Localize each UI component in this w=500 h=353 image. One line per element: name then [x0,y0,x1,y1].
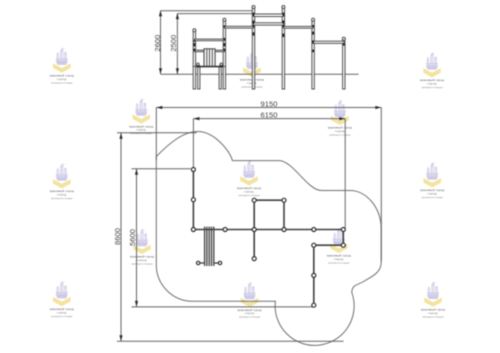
dimension line 5600 [136,169,138,307]
watermark row3 left [50,164,74,200]
watermark row3 mid [237,161,261,197]
node lower right bottom [312,303,316,307]
extension 5600 top [132,168,191,170]
main horizontal member [193,229,343,231]
lower right vertical [313,245,315,305]
ladder box elevation [204,49,215,66]
watermark row3 right [420,163,444,199]
post P3 cap [252,6,255,9]
left vertical member [192,170,194,230]
svg-text:6150: 6150 [261,111,278,120]
post P4 [282,8,284,89]
node left top [191,168,195,172]
watermark row5 mid [238,282,262,318]
dimension line 2600 [160,11,162,74]
clamps post P2 [224,25,226,27]
node ladder foot right [218,261,221,264]
square frame right [283,200,285,229]
node main line 2 [223,228,227,232]
node main line 3 [252,228,256,232]
node main line 4 [282,228,286,232]
post P6 cap [342,37,345,40]
watermark row1 mid [240,52,264,88]
square frame top [254,199,284,201]
extension line 2500 [177,13,253,15]
node main line 5 [312,228,316,232]
extension 8600 bottom [117,340,344,342]
node square TR [282,198,286,202]
watermark row2 left [129,99,153,135]
node lower right mid [312,273,316,277]
leg P2 front lower [223,67,225,90]
post P5 cap [312,18,315,21]
svg-text:2500: 2500 [169,35,178,52]
post P2 [223,21,225,67]
post P3 [252,8,254,89]
witness 9150 left [155,108,157,161]
ground line [161,73,359,75]
extension 8600 top [117,132,197,134]
clamps post P5 [312,25,314,27]
bar T2 P3-P4 [254,23,284,25]
node square TL [252,198,256,202]
clamps post P1 [194,40,196,42]
plan ladder hatch [197,227,222,266]
square frame left [253,200,255,229]
dimension line 6150 [193,118,345,120]
watermark row5 left [50,282,74,318]
foot bracket left of ladder [196,63,199,68]
leg P2 rear [219,67,221,89]
post P2 cap [223,18,226,21]
watermark row4 right [327,228,351,264]
foot bracket right of ladder [220,63,223,68]
extension 5600 bottom [132,306,314,308]
svg-text:9150: 9150 [261,99,278,108]
ladder feet connectors [197,262,205,264]
arrowheads plan dims [119,106,381,341]
leg P1 rear [198,67,200,89]
node main line right end [341,228,345,232]
node ladder foot left [197,261,200,264]
dimension line 9150 [117,108,381,342]
svg-text:8600: 8600 [113,228,122,245]
svg-text:5600: 5600 [128,229,137,246]
lower right horizontal [314,244,344,246]
bar B3 P2-P3 [224,26,253,28]
svg-text:2600: 2600 [153,35,162,52]
node right L [341,243,345,247]
node lower right top [312,243,316,247]
node left mid [191,198,195,202]
node stub end [252,257,256,261]
post P6 [343,40,345,89]
posts of elevation [193,6,345,90]
stub below square [253,230,255,259]
watermark row2 right [328,100,352,136]
bar B4 P4-P5 [283,26,313,28]
bar L3 ladder bottom thick [196,66,223,68]
post P1 cap [193,29,196,32]
witness 9150 right [380,108,382,262]
watermark row5 right [421,282,445,318]
arrowheads 2600 [159,10,179,74]
leg P1 front lower [193,67,195,90]
node left corner [191,228,195,232]
bar T1 high pullup P3-P4 [254,14,284,17]
watermark row1 left [50,48,74,84]
bar L1 ladder top P1-P2 [194,39,224,41]
bar B5 P5-P6 [313,41,344,43]
safety zone outline [156,132,381,346]
witness 6150 right [344,119,346,229]
extension line 2600 [161,10,254,12]
equipment plan lines [193,170,343,306]
post P4 cap [282,6,285,9]
clamps post P6 [343,43,345,45]
witness 6150 left [192,119,194,168]
post P1 [193,32,195,67]
right end vertical [342,230,344,246]
dimension line 8600 [120,133,122,341]
collar clamps on posts [194,13,345,53]
dimension line 2500 [176,14,178,74]
clamps post P4 [283,13,285,16]
watermark row4 left [130,229,154,265]
post nodes plan [191,168,345,308]
watermark row1 right [420,53,444,89]
clamps post P3 [253,13,255,16]
post P5 [312,21,314,89]
bar L2 ladder mid P1-P2 [194,50,224,52]
horizontal bars of elevation [194,14,343,52]
